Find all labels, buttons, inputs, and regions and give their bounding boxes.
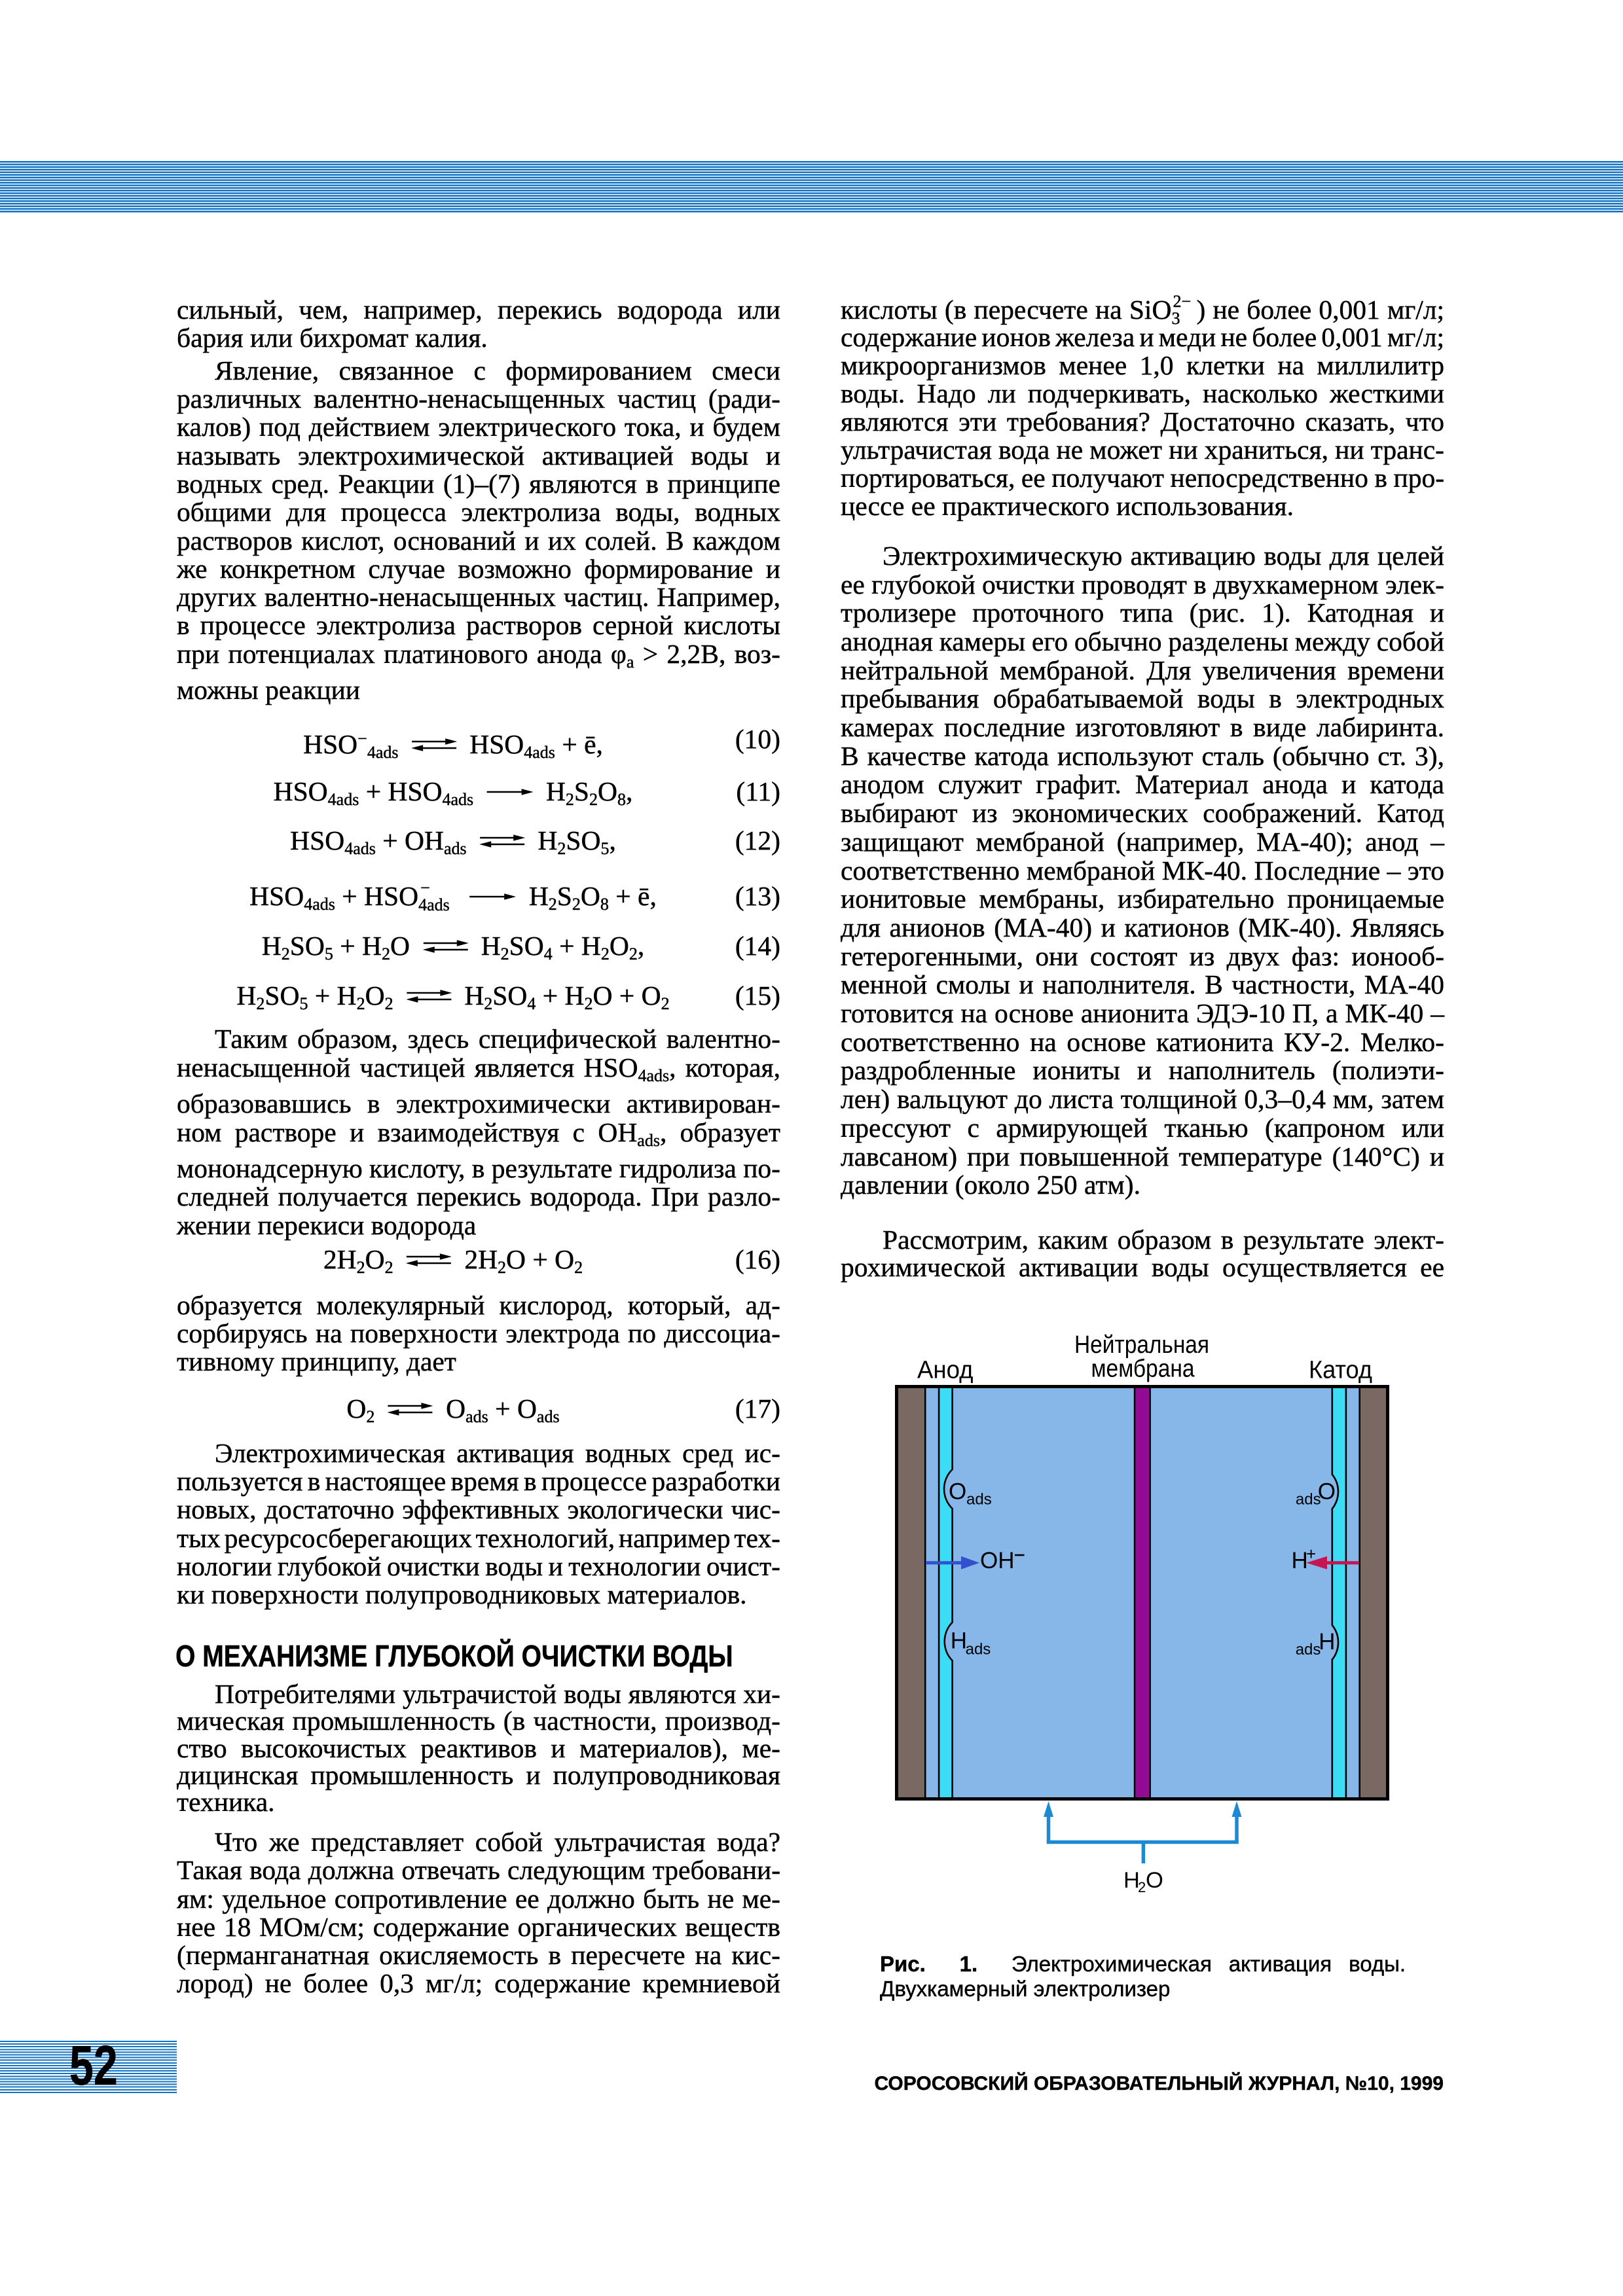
svg-text:мембрана: мембрана (1091, 1355, 1195, 1382)
left gap/cyan line (938, 1388, 940, 1797)
bulge around ads-O (1332, 1475, 1338, 1509)
svg-text:Анод: Анод (917, 1357, 974, 1384)
figure caption (880, 1952, 1406, 2001)
H+ transport arrow (1306, 1556, 1359, 1570)
svg-text:H: H (951, 1628, 967, 1654)
neutral membrane (purple) (1135, 1388, 1149, 1797)
equation (16) (177, 1244, 780, 1274)
equation (11) (177, 776, 780, 806)
cathode inner line (1359, 1388, 1360, 1797)
anode electrode (left brown) (898, 1388, 924, 1797)
electrolyzer outer border (897, 1387, 1388, 1799)
svg-text:O: O (1318, 1479, 1336, 1504)
svg-text:ads: ads (966, 1490, 992, 1508)
membrane left line (1134, 1388, 1136, 1797)
svg-text:H: H (1319, 1629, 1335, 1655)
bulge around ads-H (1332, 1625, 1338, 1660)
bulge around H_ads (945, 1623, 953, 1661)
OH- transport arrow (926, 1556, 979, 1570)
equation (10) (177, 724, 780, 754)
electrolyzer interior (898, 1388, 1386, 1797)
equation (15) (177, 980, 780, 1011)
svg-text:ads: ads (1296, 1641, 1321, 1659)
footer page band (0, 2041, 177, 2094)
left chamber boundary with bulges (944, 1388, 953, 1797)
journal footer (658, 2071, 1444, 2097)
cathode electrode (right brown) (1360, 1388, 1386, 1797)
equation (13) (177, 881, 780, 911)
bulge around O_ads (944, 1469, 953, 1509)
section heading (175, 1640, 779, 1672)
svg-text:O: O (1146, 1868, 1163, 1893)
H2O feed bracket (1044, 1801, 1242, 1863)
svg-text:2: 2 (1138, 1879, 1146, 1895)
membrane right line (1149, 1388, 1151, 1797)
top striped band (0, 161, 1623, 213)
svg-text:+: + (1306, 1544, 1316, 1564)
right cyan/gap line (1345, 1388, 1347, 1797)
right chamber boundary with bulges (1332, 1388, 1338, 1797)
svg-text:O: O (949, 1479, 966, 1504)
right cyan layer (1333, 1388, 1345, 1797)
equation (12) (177, 825, 780, 855)
svg-text:ads: ads (966, 1640, 991, 1658)
equation (17) (177, 1393, 780, 1424)
anode inner line (924, 1388, 926, 1797)
svg-text:OH: OH (980, 1548, 1015, 1573)
svg-text:H: H (1292, 1548, 1308, 1573)
svg-text:Катод: Катод (1309, 1357, 1372, 1384)
svg-text:ads: ads (1296, 1490, 1321, 1508)
left cyan layer (939, 1388, 951, 1797)
page number 52 (69, 2040, 174, 2092)
equation (14) (177, 931, 780, 961)
